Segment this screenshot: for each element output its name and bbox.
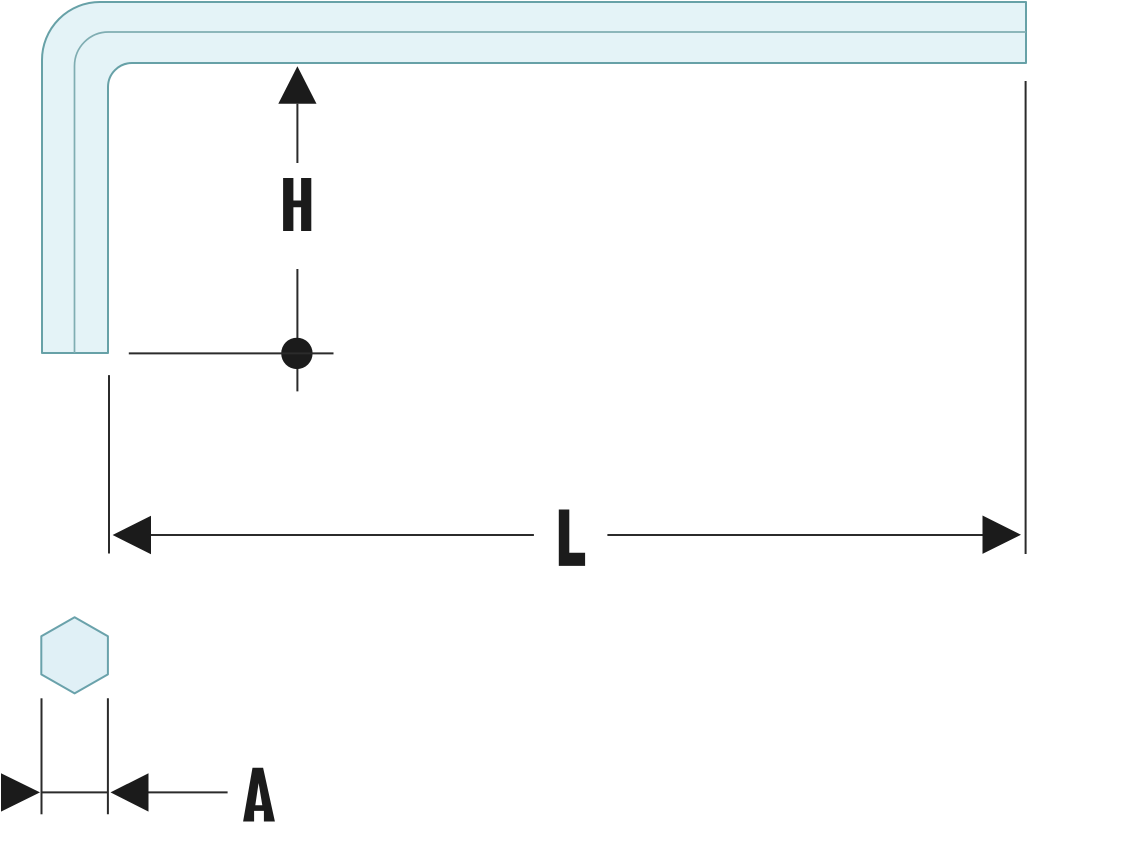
L dimension line left segment [151, 534, 534, 536]
L dimension right arrowhead [983, 516, 1022, 554]
hexagon cross-section [41, 617, 108, 693]
A dimension right arrowhead (points left) [111, 773, 149, 811]
hex key facet line [75, 32, 1027, 353]
label H [283, 178, 311, 231]
center dot marker [281, 338, 312, 369]
label A [243, 768, 275, 822]
A dimension tie line between extension lines [42, 791, 108, 793]
A right extension line [107, 698, 109, 814]
H dimension arrowhead (up) [278, 66, 316, 104]
crosshair horizontal line through dot [129, 352, 334, 354]
L right extension line [1025, 81, 1027, 554]
A dimension left arrowhead (points right) [1, 773, 40, 811]
L dimension line right segment [607, 534, 982, 536]
L dimension left arrowhead [113, 516, 151, 554]
H dimension line upper segment [296, 104, 298, 163]
A dimension line right segment [149, 791, 228, 793]
L left extension line [108, 375, 110, 553]
hex key body (L-shaped allen key outline) [42, 2, 1026, 353]
label L [559, 510, 585, 566]
H dimension line lower segment [296, 269, 298, 391]
A left extension line [41, 698, 43, 814]
